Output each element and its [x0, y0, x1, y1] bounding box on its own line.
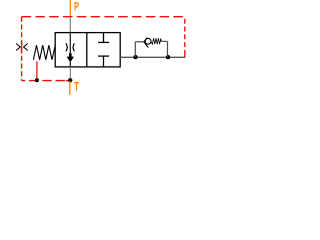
valve body box: [55, 33, 120, 67]
valve seat left arc: [66, 43, 67, 51]
right box bottom blocked port stem: [103, 56, 105, 67]
right box bottom blocked port bar: [98, 55, 109, 57]
wire valve right port (gray): [120, 56, 185, 58]
right box top blocked port stem: [103, 33, 105, 43]
check valve seat lower arm: [144, 42, 149, 48]
wire branch right horizontal: [161, 40, 167, 42]
wire below poppet: [69, 62, 71, 67]
wire branch right vertical: [167, 41, 169, 57]
pilot line bottom end dash: [66, 80, 69, 82]
pilot line left solid overlay at plug symbol: [21, 41, 23, 54]
valve seat right arc: [73, 43, 74, 51]
pilot drain line under spring (red): [36, 62, 38, 80]
pilot line right (red dashed): [184, 17, 186, 57]
poppet stem: [69, 53, 72, 57]
valve spring: [33, 45, 55, 60]
svg-text:T: T: [74, 82, 79, 94]
wire branch left vertical: [134, 42, 136, 57]
pilot line right end dash: [184, 55, 186, 58]
valve position divider: [86, 33, 88, 67]
check valve seat upper arm: [144, 38, 148, 42]
svg-text:P: P: [74, 1, 79, 13]
pilot line top (red dashed): [22, 16, 185, 18]
wire inside left box: [69, 33, 71, 57]
pilot line left (red dashed): [21, 17, 23, 81]
wire branch left horizontal: [135, 41, 144, 43]
port T line (orange): [69, 81, 71, 95]
wire valve bottom to T junction (gray): [69, 67, 71, 79]
check valve ball: [145, 38, 151, 44]
node branch left junction dot: [133, 55, 137, 59]
check valve spring: [151, 38, 161, 44]
junction dot T node: [68, 78, 72, 82]
wire P pilot gray segment: [69, 17, 71, 32]
junction dot drain node: [35, 78, 39, 82]
right box top blocked port bar: [98, 41, 109, 43]
port P line (orange): [69, 0, 71, 17]
plug symbol right chevron: [24, 44, 28, 51]
poppet triangle: [67, 57, 74, 63]
node branch right junction dot: [166, 55, 170, 59]
pilot line bottom (red dashed): [22, 80, 69, 82]
plug symbol left chevron: [16, 44, 20, 51]
